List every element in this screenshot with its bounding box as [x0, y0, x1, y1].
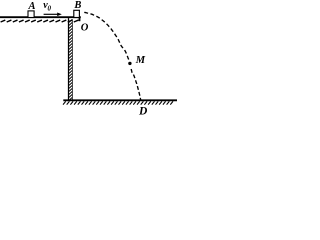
velocity arrow — [44, 13, 59, 15]
wall right edge line — [71, 19, 73, 100]
svg-text:B: B — [73, 0, 81, 11]
svg-text:O: O — [81, 23, 89, 34]
table right-end stub — [79, 17, 81, 22]
ground hatching — [63, 101, 173, 104]
dashed projectile trajectory O to M — [84, 12, 128, 59]
svg-text:M: M — [135, 55, 146, 66]
wall hatching — [69, 19, 72, 100]
point M dot — [128, 62, 131, 65]
table top surface line — [0, 16, 81, 18]
svg-text:D: D — [138, 105, 148, 117]
dashed projectile trajectory M to D — [131, 69, 141, 100]
block B — [74, 10, 80, 17]
wall left edge line — [68, 18, 70, 101]
block A — [28, 11, 34, 18]
ground line — [63, 99, 177, 101]
table hatching — [1, 20, 79, 22]
svg-text:0: 0 — [48, 4, 52, 12]
svg-text:A: A — [27, 1, 35, 12]
